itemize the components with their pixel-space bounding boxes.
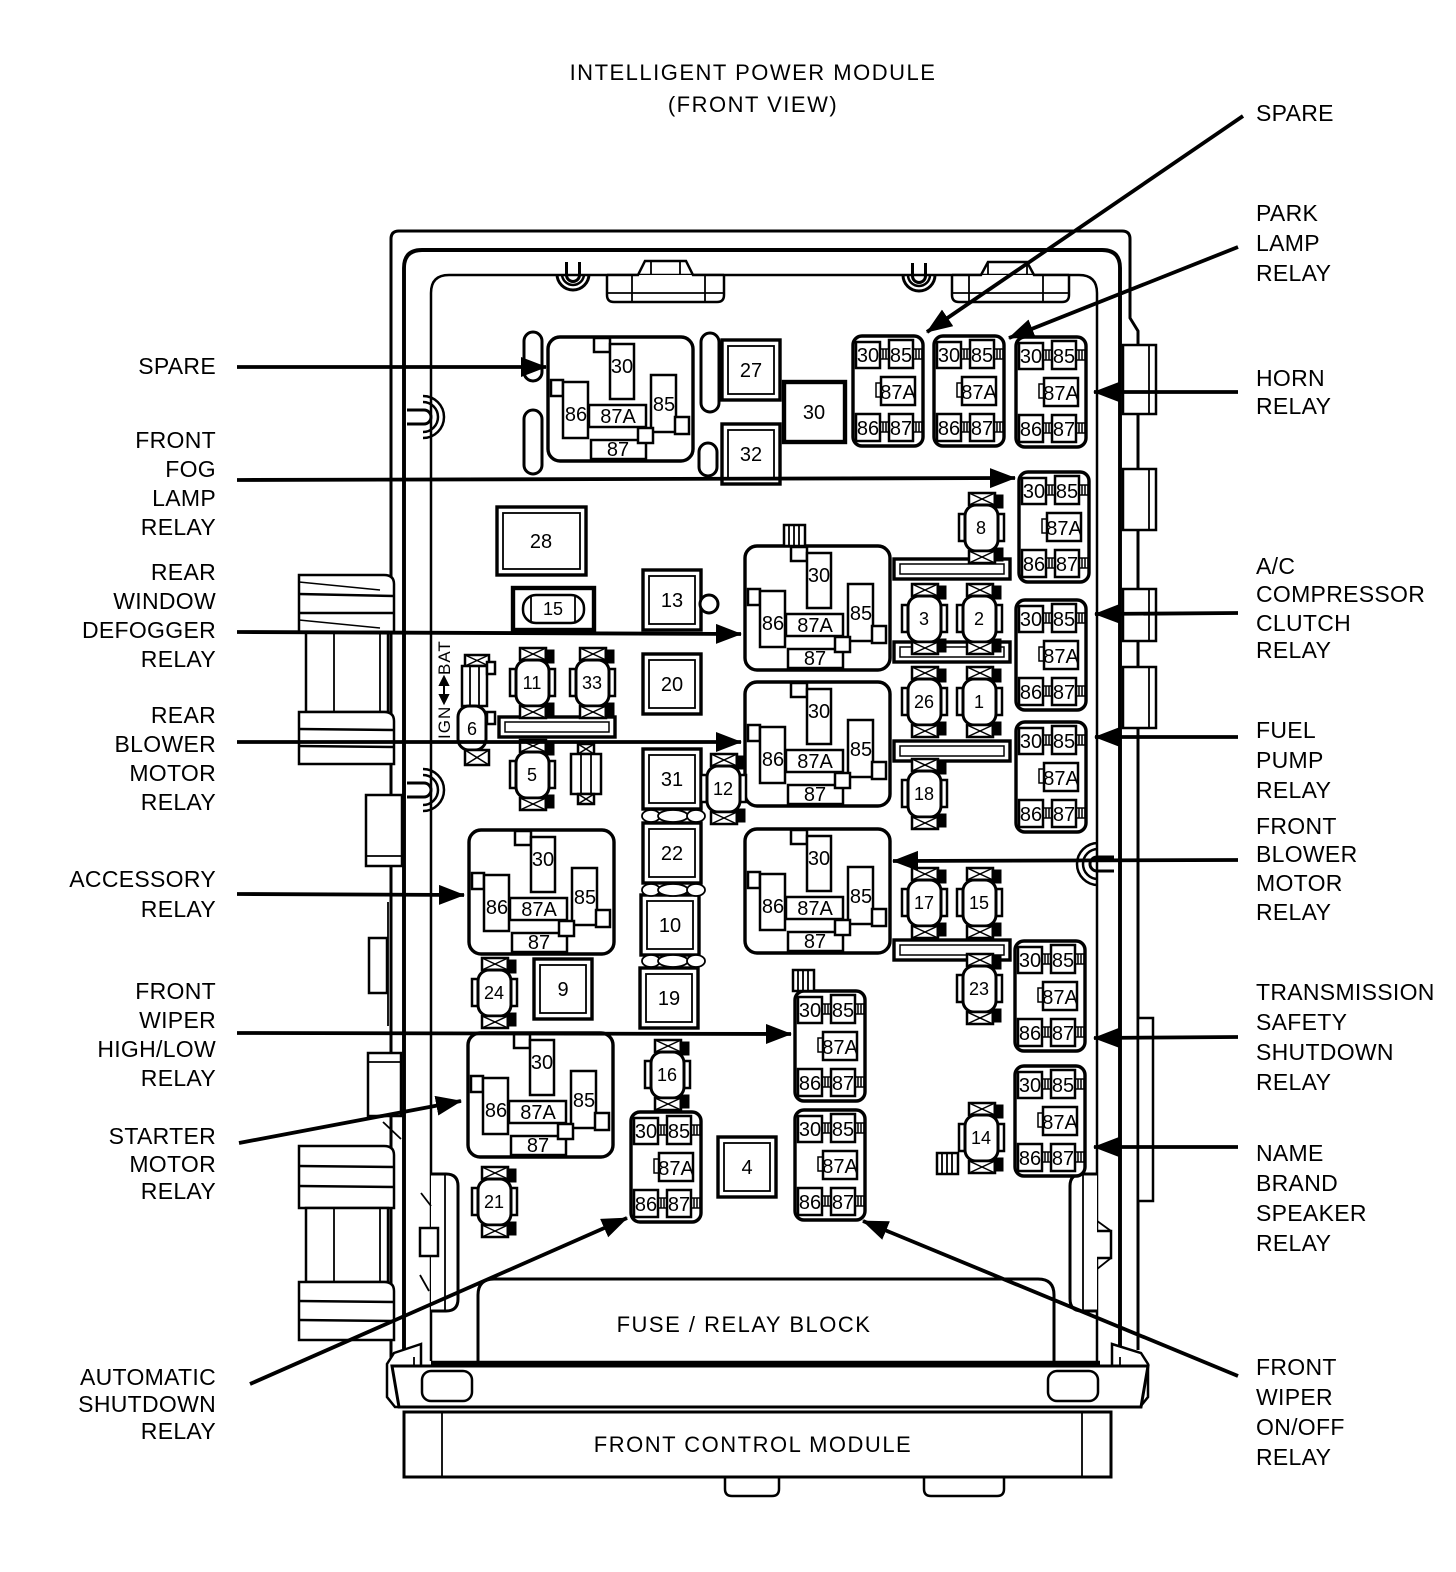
svg-text:(FRONT VIEW): (FRONT VIEW)	[668, 92, 838, 117]
svg-text:30: 30	[803, 402, 825, 424]
svg-text:FUEL: FUEL	[1256, 717, 1316, 743]
svg-text:6: 6	[467, 719, 477, 739]
svg-text:SPARE: SPARE	[1256, 100, 1334, 126]
svg-text:11: 11	[523, 673, 542, 693]
svg-text:19: 19	[658, 988, 680, 1010]
svg-text:3: 3	[919, 609, 929, 629]
svg-text:26: 26	[914, 692, 934, 712]
svg-text:21: 21	[484, 1192, 504, 1212]
svg-text:13: 13	[661, 590, 683, 612]
svg-text:HIGH/LOW: HIGH/LOW	[97, 1036, 216, 1062]
svg-text:27: 27	[740, 360, 762, 382]
svg-text:10: 10	[659, 915, 681, 937]
svg-text:FRONT CONTROL MODULE: FRONT CONTROL MODULE	[594, 1432, 912, 1457]
svg-text:CLUTCH: CLUTCH	[1256, 610, 1351, 636]
svg-text:SHUTDOWN: SHUTDOWN	[78, 1391, 216, 1417]
svg-text:COMPRESSOR: COMPRESSOR	[1256, 581, 1425, 607]
svg-text:31: 31	[661, 769, 683, 791]
svg-text:23: 23	[969, 979, 989, 999]
svg-text:A/C: A/C	[1256, 553, 1295, 579]
svg-text:RELAY: RELAY	[1256, 260, 1331, 286]
svg-text:FUSE / RELAY BLOCK: FUSE / RELAY BLOCK	[617, 1312, 872, 1337]
svg-text:RELAY: RELAY	[141, 1065, 216, 1091]
svg-text:RELAY: RELAY	[141, 896, 216, 922]
svg-text:REAR: REAR	[151, 559, 216, 585]
svg-text:NAME: NAME	[1256, 1140, 1324, 1166]
svg-text:BLOWER: BLOWER	[1256, 841, 1357, 867]
svg-text:SHUTDOWN: SHUTDOWN	[1256, 1039, 1394, 1065]
svg-text:PUMP: PUMP	[1256, 747, 1324, 773]
svg-text:20: 20	[661, 674, 683, 696]
svg-text:FRONT: FRONT	[135, 427, 216, 453]
svg-text:WIPER: WIPER	[1256, 1384, 1333, 1410]
svg-text:RELAY: RELAY	[1256, 637, 1331, 663]
svg-text:RELAY: RELAY	[141, 1178, 216, 1204]
svg-text:ACCESSORY: ACCESSORY	[69, 866, 216, 892]
svg-text:MOTOR: MOTOR	[1256, 870, 1343, 896]
svg-text:FOG: FOG	[165, 456, 216, 482]
svg-text:IGN: IGN	[435, 706, 454, 739]
svg-text:INTELLIGENT POWER MODULE: INTELLIGENT POWER MODULE	[570, 60, 937, 85]
svg-text:15: 15	[969, 893, 989, 913]
svg-text:5: 5	[527, 765, 537, 785]
svg-text:ON/OFF: ON/OFF	[1256, 1414, 1345, 1440]
svg-text:SAFETY: SAFETY	[1256, 1009, 1347, 1035]
svg-text:FRONT: FRONT	[135, 978, 216, 1004]
svg-text:18: 18	[914, 784, 934, 804]
svg-text:15: 15	[543, 599, 563, 619]
svg-text:RELAY: RELAY	[141, 789, 216, 815]
svg-text:LAMP: LAMP	[152, 485, 216, 511]
svg-text:DEFOGGER: DEFOGGER	[82, 617, 216, 643]
svg-text:RELAY: RELAY	[1256, 1230, 1331, 1256]
svg-text:14: 14	[971, 1128, 991, 1148]
svg-text:WINDOW: WINDOW	[113, 588, 216, 614]
svg-text:12: 12	[713, 779, 733, 799]
svg-text:FRONT: FRONT	[1256, 813, 1337, 839]
svg-text:RELAY: RELAY	[1256, 1069, 1331, 1095]
svg-text:RELAY: RELAY	[141, 1418, 216, 1444]
svg-text:REAR: REAR	[151, 702, 216, 728]
svg-text:BLOWER: BLOWER	[115, 731, 216, 757]
svg-text:PARK: PARK	[1256, 200, 1318, 226]
svg-text:BRAND: BRAND	[1256, 1170, 1338, 1196]
svg-text:22: 22	[661, 843, 683, 865]
svg-text:2: 2	[974, 609, 984, 629]
svg-text:RELAY: RELAY	[141, 646, 216, 672]
svg-text:MOTOR: MOTOR	[129, 760, 216, 786]
svg-text:RELAY: RELAY	[1256, 777, 1331, 803]
svg-text:28: 28	[530, 531, 552, 553]
svg-text:9: 9	[557, 979, 568, 1001]
svg-text:24: 24	[484, 983, 504, 1003]
svg-text:RELAY: RELAY	[1256, 1444, 1331, 1470]
svg-text:AUTOMATIC: AUTOMATIC	[80, 1364, 216, 1390]
svg-text:16: 16	[657, 1065, 677, 1085]
svg-text:LAMP: LAMP	[1256, 230, 1320, 256]
svg-text:4: 4	[741, 1157, 752, 1179]
svg-text:RELAY: RELAY	[1256, 899, 1331, 925]
svg-text:17: 17	[914, 893, 934, 913]
svg-text:SPARE: SPARE	[138, 353, 216, 379]
svg-text:SPEAKER: SPEAKER	[1256, 1200, 1367, 1226]
svg-text:BAT: BAT	[435, 640, 454, 675]
svg-text:HORN: HORN	[1256, 365, 1325, 391]
svg-text:TRANSMISSION: TRANSMISSION	[1256, 979, 1435, 1005]
svg-text:WIPER: WIPER	[139, 1007, 216, 1033]
svg-text:1: 1	[974, 692, 984, 712]
svg-text:STARTER: STARTER	[109, 1123, 216, 1149]
svg-text:32: 32	[740, 444, 762, 466]
svg-text:RELAY: RELAY	[141, 514, 216, 540]
svg-text:RELAY: RELAY	[1256, 393, 1331, 419]
svg-text:8: 8	[976, 518, 986, 538]
svg-text:MOTOR: MOTOR	[129, 1151, 216, 1177]
svg-text:FRONT: FRONT	[1256, 1354, 1337, 1380]
svg-text:33: 33	[582, 673, 602, 693]
